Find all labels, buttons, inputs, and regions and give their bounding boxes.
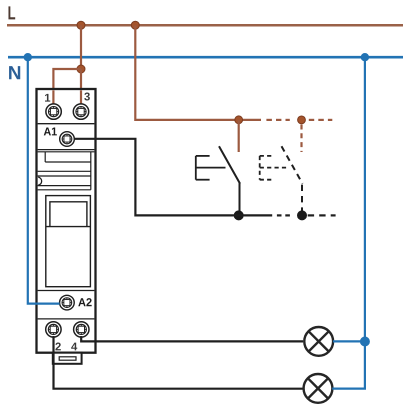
push-button S2 actuator E dashed xyxy=(260,156,288,180)
contactor moulding line 3 xyxy=(38,185,91,187)
pin label 3 xyxy=(84,93,90,101)
terminal screw A1 xyxy=(60,132,75,147)
contactor lever bump xyxy=(38,177,41,185)
wire brown stub into terminal 1 xyxy=(52,90,54,104)
contactor label holder xyxy=(38,151,95,153)
junction dot on L at x81 xyxy=(77,21,85,29)
junction dot blue right on N line xyxy=(361,53,369,61)
wire brown drop into terminal 3 xyxy=(80,69,82,104)
wire L line xyxy=(7,24,403,27)
terminal screw 4 xyxy=(74,322,89,337)
junction dot blue on N line xyxy=(24,53,32,61)
wire brown drop L to junction xyxy=(80,25,82,69)
contactor inner right edge xyxy=(90,152,92,190)
pin label A2 xyxy=(78,298,91,306)
lamp H2 xyxy=(304,374,333,403)
contactor section line below A1 xyxy=(38,149,95,151)
wire brown dashed extension xyxy=(266,119,332,121)
junction dot blue at lamp H1 level xyxy=(360,337,370,347)
push-button S1 contact blade xyxy=(219,146,240,183)
junction dot black S2 bottom xyxy=(297,210,307,220)
junction dot brown at (81,69) xyxy=(77,65,85,73)
wire blue right return xyxy=(332,57,365,388)
contactor moulding line 1 xyxy=(38,170,91,172)
node N label xyxy=(9,66,20,79)
contactor section line below A2 xyxy=(38,318,95,320)
contactor moulding line 2 xyxy=(38,175,91,177)
wire brown S1 top terminal xyxy=(238,120,240,152)
node L label xyxy=(8,6,15,19)
wire A1 coil feed xyxy=(75,139,273,216)
contactor section line above A2 xyxy=(38,290,95,292)
contactor DIN clip slot xyxy=(59,357,76,360)
contactor DIN clip xyxy=(53,353,82,364)
pin label 1 xyxy=(45,94,50,102)
contactor window inner xyxy=(50,202,87,227)
lamp H1 xyxy=(304,327,333,356)
push-button S1 actuator E xyxy=(196,156,226,180)
push-button S2 lower terminal dashed xyxy=(301,185,303,216)
wire brown stub into terminal 3 xyxy=(80,90,82,104)
wire N line xyxy=(8,56,403,59)
junction dot brown switch S2 top xyxy=(298,116,306,124)
wire terminal 4 to lamp H1 xyxy=(81,336,303,341)
wire terminal 2 to lamp H2 xyxy=(54,336,303,389)
terminal screw 1 xyxy=(46,104,61,119)
wire black dashed bottom extension xyxy=(277,214,336,216)
push-button S1 lower terminal xyxy=(239,183,241,215)
terminal screw 3 xyxy=(73,104,88,119)
terminal screw 2 xyxy=(46,322,61,337)
contactor moulding line 4 xyxy=(38,189,91,191)
contactor window outer xyxy=(46,196,91,287)
wire N drop to A2 xyxy=(28,57,60,303)
contactor section line below terminals 1-3 xyxy=(38,123,95,125)
junction dot on L at x134 xyxy=(131,21,139,29)
contactor window divider xyxy=(46,226,91,228)
wire brown dashed S2 top terminal xyxy=(300,125,302,153)
pin label 2 xyxy=(55,343,60,351)
junction dot black S1 bottom xyxy=(234,210,244,220)
junction dot brown switch S1 top xyxy=(235,116,243,124)
wire brown drop from L to switch feed xyxy=(135,25,261,120)
wire brown horizontal to terminal 1 branch xyxy=(53,69,81,104)
terminal screw A2 xyxy=(60,295,75,310)
push-button S2 contact blade dashed xyxy=(282,146,303,183)
pin label A1 xyxy=(44,127,57,135)
pin label 4 xyxy=(71,343,77,351)
wire blue lamp H1 to return xyxy=(333,340,365,342)
contactor K1 body xyxy=(37,89,96,353)
